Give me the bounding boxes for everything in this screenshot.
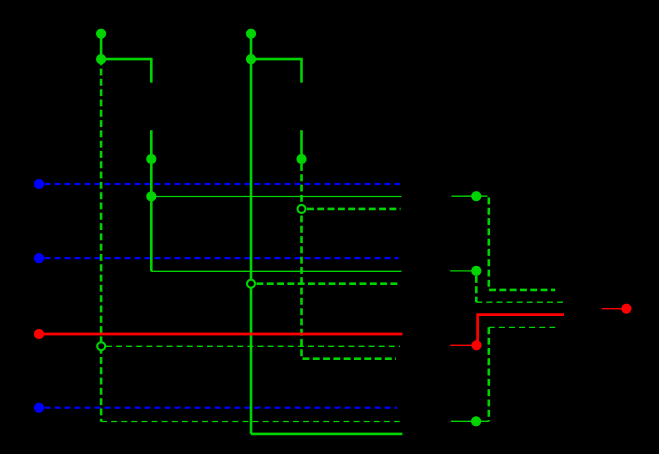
node: row 1 blue input dot	[34, 179, 44, 189]
wire: stub A1 vertical solid	[150, 130, 153, 271]
junction: open circle on column B at row 2	[247, 280, 255, 288]
wire: right red elbow output	[478, 315, 564, 346]
wire: right thin dashed output row 4	[489, 326, 555, 328]
wire: far right red stub	[602, 308, 627, 310]
wire: stub B1 dashed vertical with corner to row 3	[302, 164, 397, 359]
node: stub A1 upper dot	[146, 154, 156, 164]
wire: right row 4 thin stub	[451, 420, 489, 422]
junction: open circle on column A at row 3	[97, 342, 105, 350]
node: row 4 blue input dot	[34, 403, 44, 413]
wire: row 2 thin solid green	[151, 270, 401, 272]
wire: row 2 blue dashed	[45, 257, 399, 259]
wire: column A horizontal branch to stub A1	[101, 59, 151, 83]
wire: row 4 thick solid green	[251, 433, 402, 436]
wire: right row 1 thin stub	[452, 195, 488, 197]
wire: column A dashed vertical	[100, 62, 103, 422]
wire: column A vertical solid top segment	[100, 34, 103, 59]
wire: right thick dashed below row 2 dot	[475, 276, 478, 302]
node: stub A1 dot on row 1	[146, 191, 156, 201]
junction: open circle on stub B1 at row 1	[298, 205, 306, 213]
wire: stub B1 vertical solid upper	[300, 130, 303, 163]
wire: right thick dashed from row 1 dot down and right	[489, 198, 555, 290]
wire: right row 3 thin red stub	[450, 344, 476, 346]
node: right row 4 green dot	[471, 416, 481, 426]
node: column B top dot	[246, 29, 256, 39]
node: column B second dot	[246, 54, 256, 64]
wire: row 4 thin dashed green	[101, 421, 400, 423]
wire: row 1 thick dashed green from circle	[307, 208, 401, 211]
node: row 2 blue input dot	[34, 253, 44, 263]
wire: row 2 thick dashed green from circle	[257, 282, 401, 285]
node: column A top dot	[96, 29, 106, 39]
node: stub B1 dot	[296, 154, 306, 164]
wire: row 3 thin dashed green from circle	[106, 345, 400, 347]
node: right row 1 green dot	[471, 191, 481, 201]
wire: row 3 red solid	[39, 333, 402, 336]
wire: right thin dashed output row 2	[476, 301, 565, 303]
wire: right thick dashed from row 4 dot up	[487, 327, 490, 421]
wire: column B horizontal branch to stub B1	[251, 59, 302, 83]
node: right row 3 red dot	[471, 340, 481, 350]
wire: row 4 blue dashed	[45, 407, 398, 409]
wire: column B vertical solid	[250, 34, 253, 434]
wire: right row 2 thin stub	[450, 270, 476, 272]
wire: row 1 thin solid green	[151, 196, 401, 198]
node: row 3 red input dot	[34, 329, 44, 339]
node: far right red output dot	[621, 304, 631, 314]
wire: row 1 blue dashed	[45, 183, 401, 185]
node: column A second dot	[96, 54, 106, 64]
node: right row 2 green dot	[471, 266, 481, 276]
